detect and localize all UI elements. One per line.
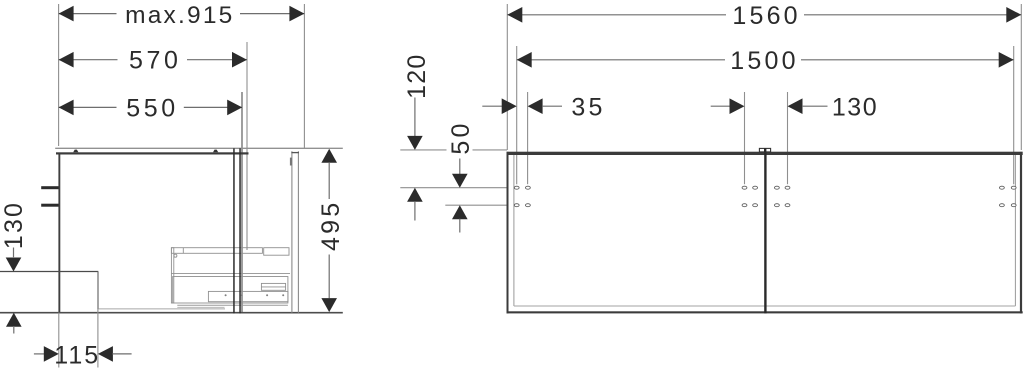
svg-text:1560: 1560 [732,2,800,30]
svg-text:495: 495 [317,200,345,251]
side view: extension line 550 / door face [241,92,243,313]
side view: wall bracket lower [41,204,58,207]
svg-text:1500: 1500 [730,47,798,75]
front view: extension line 1500 right / hole column [1013,46,1015,184]
dimension 570 [59,47,247,75]
dimension 120 (vertical) [403,54,431,221]
side view: wall bracket upper [41,186,58,189]
side view: washbasin side panel back line [297,151,299,313]
side view: panel clip [290,158,292,166]
svg-text:570: 570 [129,47,182,75]
side view: ground line [0,312,343,314]
dimension 130 (front view) [711,94,878,122]
front view: extension line hole row 2 [445,204,507,206]
side view: drawer shelf line [171,272,290,274]
side view: countertop dark edge [56,152,249,154]
dimension 115: extension line left [58,313,60,368]
front view: extension line 35 / hole column [527,92,529,184]
svg-text:550: 550 [126,95,179,123]
dimension 495 (side view, vertical) [317,149,345,312]
front view: drawer front left inner line [513,155,515,306]
front view: drawer front bottom inner line [514,305,1016,307]
front view: extension line 1560 left [506,4,508,150]
dimension 130 (side view, vertical) [0,201,28,334]
side view: extension line max.915 right [303,4,305,148]
side view: interior drawer rail bar [171,248,289,256]
side view: door front line inner [239,148,241,313]
side view: cabinet back wall [58,155,60,313]
front view: extension line hole row 1 [400,187,507,189]
side view: drawer strip screw [174,254,177,257]
dimension 550 [59,95,243,123]
side view: mounting clip mark left [73,150,78,153]
side view: washbasin side panel top cap [291,152,299,154]
svg-text:115: 115 [54,342,100,369]
side view: drawer back strip [171,248,173,303]
svg-text:130: 130 [832,94,878,122]
front view: extension line 1500 left / hole column [516,46,518,184]
side view: mounting clip mark right [213,150,218,153]
svg-text:50: 50 [447,120,475,154]
side view: washbasin side panel front line [291,151,293,313]
svg-text:35: 35 [571,94,605,122]
front view: extension line 130 right / hole column [787,92,789,184]
side view: recess top line (130 extension) [0,271,98,273]
side view: drawer box [173,277,288,304]
front view: center divider between drawers [764,152,766,314]
side view: tray screws [225,294,285,296]
front view: mounting hole marks [514,186,1016,207]
front view: extension line 1560 right [1020,4,1022,150]
dimension 35 [482,94,605,122]
front view: cabinet top edge [507,152,1023,155]
dimension max.915 [59,2,305,29]
side view: cabinet bottom board line [98,308,225,310]
side view: countertop top light line (extends right as 495 extension) [55,147,343,149]
dimension 1560 [507,2,1021,30]
side view: door front line outer [233,148,235,313]
side view: recess vertical edge [97,272,99,310]
front view: top fixing tab [759,148,770,152]
svg-text:130: 130 [0,201,28,249]
side view: extension line left (x=58.6) [58,4,60,146]
front view: extension line 130 left / hole column [744,92,746,184]
front view: cabinet left edge [507,152,509,314]
front view: cabinet bottom edge [507,311,1023,313]
side view: extension line 570 [246,42,248,250]
dimension 50 (vertical) [447,120,475,232]
front view: extension line y=150 (120 dim) [400,149,446,151]
side view: drawer bottom shadow line [177,306,224,308]
side view: drawer bottom plate line [177,304,288,306]
dimension 115: extension line right [97,309,99,368]
dimension 1500 [517,47,1014,75]
svg-text:max.915: max.915 [125,2,234,29]
svg-text:120: 120 [403,54,431,99]
front view: drawer front right inner line [1014,155,1016,306]
side view: siphon box [261,283,285,290]
dimension 115 [34,342,132,369]
front view: cabinet right edge [1020,152,1022,314]
side view: drawer inner tray [208,291,288,301]
